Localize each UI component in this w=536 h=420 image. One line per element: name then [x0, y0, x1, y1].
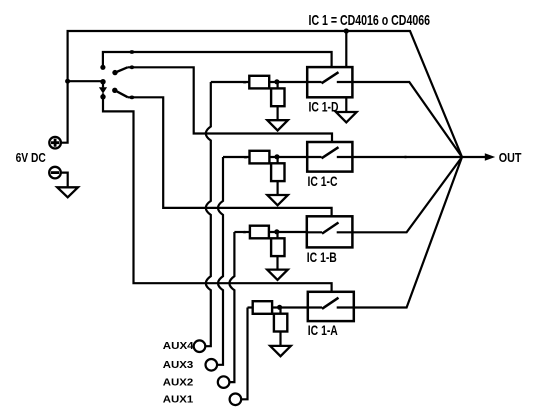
resistor pulldown IC1-D: [271, 88, 284, 106]
wire stub to pulldown: [279, 308, 281, 314]
wire IC1-C output to OUT node: [352, 156, 462, 158]
terminal AUX4: [194, 340, 206, 352]
wire IC1-D output to OUT node: [352, 82, 462, 157]
wire AUX4 riser with hops: [205, 82, 211, 346]
arrow OUT: [485, 153, 495, 161]
wire +6V rail top: from plus terminal up, right along top, diagonal to OUT node: [62, 31, 463, 157]
terminal AUX1: [230, 394, 242, 406]
wire switch stubs IC1-B: [307, 231, 353, 233]
node selector common dot: [100, 79, 105, 84]
node upper lever pivot dot: [112, 70, 117, 75]
wire switch stubs IC1-C: [307, 156, 352, 158]
node +6V junction dot on left column: [65, 79, 70, 84]
svg-text:IC 1-A: IC 1-A: [308, 322, 338, 338]
wire IC1-D input: [211, 81, 250, 83]
node contact dot on rail at x=132: [129, 50, 134, 54]
svg-text:IC 1-C: IC 1-C: [308, 173, 338, 189]
op switch box IC1-C: [307, 142, 352, 172]
svg-text:AUX4: AUX4: [163, 341, 194, 352]
switch lever upper selector: [115, 67, 128, 72]
svg-text:AUX3: AUX3: [163, 360, 194, 371]
svg-text:6V DC: 6V DC: [16, 150, 47, 165]
wire top rail to IC1-D box top (VDD): [345, 31, 347, 67]
wire pulldown to ground: [279, 332, 281, 346]
node junction dot IC1-A: [277, 305, 282, 310]
arrow selector actuator (points down): [99, 87, 107, 93]
switch lever IC1-B: [322, 223, 339, 234]
node selector lower common dot: [100, 94, 105, 99]
wire stub to pulldown: [277, 82, 279, 88]
node blob: [243, 81, 247, 83]
switch lever IC1-C: [322, 147, 339, 158]
svg-text:IC 1-B: IC 1-B: [307, 249, 337, 265]
wire lower lever line to IC1-B control: [128, 97, 332, 217]
wire IC1-A input: [248, 306, 253, 308]
resistor series IC1-C: [250, 151, 270, 164]
resistor series IC1-A: [253, 301, 272, 314]
resistor pulldown IC1-A: [274, 314, 287, 332]
node junction dot on top rail: [344, 28, 349, 33]
wire resistor to IC1-B box: [269, 231, 307, 233]
node blob: [243, 156, 247, 158]
wire pulldown to ground: [277, 106, 279, 120]
wire IC1-D box bottom to ground: [345, 97, 347, 112]
wire arrow shaft selector: [102, 82, 104, 88]
resistor series IC1-B: [250, 226, 269, 239]
switch lever lower selector: [115, 90, 128, 97]
svg-text:IC 1 = CD4016 o CD4066: IC 1 = CD4016 o CD4066: [309, 12, 431, 29]
wire stub to pulldown: [277, 157, 279, 163]
wire switch stubs IC1-A: [308, 306, 354, 308]
ground IC1-C pulldown: [267, 195, 288, 205]
wire upper lever line to IC1-C control: [128, 67, 332, 142]
svg-text:AUX1: AUX1: [163, 395, 194, 406]
op switch box IC1-D: [307, 67, 352, 97]
node blob on output line: [403, 156, 407, 158]
resistor series IC1-D: [249, 76, 269, 89]
node selector pole dot upper: [100, 65, 105, 70]
node junction dot IC1-B: [274, 229, 279, 234]
ground IC1-A pulldown: [270, 346, 291, 356]
node upper contact dot: [129, 65, 134, 69]
op switch box IC1-B: [307, 216, 353, 247]
ground IC1-B pulldown: [267, 270, 288, 280]
wire AUX1 riser: [241, 308, 247, 400]
node blob: [242, 231, 246, 233]
wire resistor to IC1-A box: [272, 306, 308, 308]
node lower lever pivot dot: [112, 88, 117, 93]
node lower contact dot: [129, 96, 134, 100]
terminal AUX3: [206, 359, 218, 371]
wire IC1-B input: [234, 231, 250, 233]
op switch box IC1-A: [308, 292, 354, 321]
ground IC1-D pulldown: [267, 120, 288, 130]
ground power supply: [57, 187, 78, 197]
ground under IC1-D box: [336, 112, 357, 122]
wire AUX2 riser with hop: [229, 232, 234, 382]
wire minus to ground: [61, 173, 68, 188]
switch lever IC1-A: [322, 298, 339, 309]
wire selector common down to IC1-A control: [103, 93, 332, 292]
wire +6V feed to selector common: [68, 80, 103, 82]
wire pulldown to ground: [276, 256, 278, 270]
terminal minus 6V: [49, 167, 61, 179]
wire resistor to IC1-D box: [269, 81, 307, 83]
switch lever IC1-D: [322, 72, 339, 83]
wire IC1-B output to OUT node: [352, 157, 462, 232]
svg-text:AUX2: AUX2: [163, 378, 194, 389]
wire OUT: [462, 156, 486, 158]
terminal plus 6V: [49, 137, 61, 149]
svg-text:IC 1-D: IC 1-D: [309, 98, 339, 114]
node junction dot IC1-D: [274, 79, 279, 84]
wire switch stubs IC1-D: [307, 81, 352, 83]
wire pulldown to ground: [277, 181, 279, 195]
resistor pulldown IC1-C: [271, 163, 284, 181]
wire IC1-C input: [223, 156, 250, 158]
wire AUX3 riser with hops: [217, 157, 223, 365]
wire resistor to IC1-C box: [269, 156, 307, 158]
terminal AUX2: [218, 376, 230, 388]
wire selector rail to IC1-D control: [103, 52, 332, 67]
wire stub to pulldown: [276, 232, 278, 238]
svg-text:OUT: OUT: [499, 151, 522, 165]
wire IC1-A output to OUT node: [354, 157, 462, 308]
resistor pulldown IC1-B: [271, 238, 284, 256]
node junction dot IC1-C: [274, 154, 279, 159]
